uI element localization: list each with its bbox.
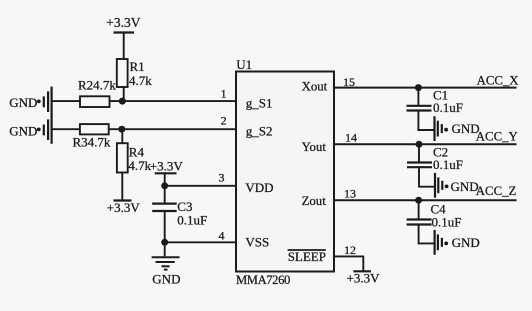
GND port (C2) bbox=[435, 173, 442, 198]
GND port (row 2) bbox=[37, 115, 52, 144]
svg-text:SLEEP: SLEEP bbox=[288, 249, 326, 264]
svg-text:GND: GND bbox=[9, 95, 37, 110]
power +3.3V P1 top bbox=[114, 33, 135, 60]
svg-text:GND: GND bbox=[9, 123, 37, 138]
wire C4 to GND port bbox=[419, 225, 435, 243]
svg-text:R34.7k: R34.7k bbox=[73, 134, 111, 149]
wire C3 to VSS node bbox=[164, 212, 166, 242]
wire node to R4 bbox=[121, 129, 123, 143]
capacitor C2 bbox=[407, 163, 432, 168]
svg-text:+3.3V: +3.3V bbox=[107, 200, 141, 215]
svg-text:g_S2: g_S2 bbox=[246, 124, 273, 139]
earth ground symbol bbox=[152, 257, 180, 269]
wire node to C4 bbox=[418, 200, 420, 218]
junction node (Zout/C4) bbox=[415, 197, 422, 204]
GND port (C1) bbox=[435, 116, 442, 141]
wire Zout pin13 bbox=[334, 199, 517, 201]
svg-text:U1: U1 bbox=[236, 57, 252, 72]
junction node (R3/R4/pin2) bbox=[118, 126, 125, 133]
svg-text:13: 13 bbox=[344, 187, 356, 201]
GND port (row 1) bbox=[37, 87, 52, 116]
svg-text:12: 12 bbox=[344, 243, 356, 257]
power +3.3V P3 (above C3) bbox=[155, 173, 177, 186]
wire Yout pin14 bbox=[334, 143, 517, 145]
wire node to C2 bbox=[418, 144, 420, 161]
capacitor C4 bbox=[407, 220, 432, 225]
wire row2 to U1 pin2 bbox=[109, 128, 236, 130]
wire node to C1 bbox=[417, 88, 419, 105]
svg-text:14: 14 bbox=[345, 131, 357, 145]
svg-text:ACC_Y: ACC_Y bbox=[476, 130, 518, 144]
svg-text:Yout: Yout bbox=[302, 140, 327, 154]
svg-text:1: 1 bbox=[221, 86, 227, 100]
svg-text:GND: GND bbox=[452, 235, 480, 250]
svg-text:+3.3V: +3.3V bbox=[347, 271, 381, 286]
SLEEP overline bbox=[288, 249, 326, 251]
svg-text:VSS: VSS bbox=[245, 235, 269, 250]
svg-text:MMA7260: MMA7260 bbox=[236, 273, 290, 287]
wire Xout pin15 bbox=[334, 87, 517, 89]
junction node (R1/R2/pin1) bbox=[119, 98, 126, 105]
wire C2 to GND port bbox=[419, 168, 435, 187]
svg-text:4: 4 bbox=[219, 229, 225, 243]
resistor R2 bbox=[80, 96, 110, 107]
svg-text:g_S1: g_S1 bbox=[246, 95, 273, 110]
svg-text:R24.7k: R24.7k bbox=[78, 78, 116, 93]
svg-text:+3.3V: +3.3V bbox=[106, 15, 140, 30]
svg-text:2: 2 bbox=[221, 114, 227, 128]
wire VSS pin4 bbox=[165, 241, 236, 243]
power +3.3V P2 (below R4) bbox=[114, 199, 132, 201]
resistor R1 bbox=[117, 59, 128, 87]
svg-text:3: 3 bbox=[219, 171, 225, 185]
svg-text:GND: GND bbox=[152, 272, 180, 287]
resistor R3 bbox=[80, 124, 109, 134]
svg-text:Xout: Xout bbox=[302, 80, 328, 94]
wire VDD pin3 bbox=[165, 185, 236, 187]
svg-text:4.7k: 4.7k bbox=[128, 158, 151, 173]
capacitor C1 bbox=[407, 106, 432, 111]
op IC U1 box bbox=[236, 72, 334, 272]
svg-text:4.7k: 4.7k bbox=[129, 73, 152, 88]
wire R4 to power bbox=[121, 173, 123, 201]
svg-text:ACC_X: ACC_X bbox=[477, 74, 520, 88]
svg-text:+3.3V: +3.3V bbox=[150, 158, 184, 173]
svg-text:R1: R1 bbox=[130, 59, 145, 74]
svg-text:0.1uF: 0.1uF bbox=[433, 157, 463, 172]
power +3.3V P4 (SLEEP pullup) bbox=[353, 270, 371, 272]
svg-text:0.1uF: 0.1uF bbox=[433, 100, 463, 115]
capacitor C3 bbox=[152, 204, 177, 211]
svg-text:ACC_Z: ACC_Z bbox=[476, 184, 517, 198]
wire row1 left bbox=[52, 100, 80, 102]
wire row1 to U1 pin1 bbox=[110, 100, 237, 102]
junction node (VSS/C3/GND) bbox=[161, 239, 168, 246]
junction node (Yout/C2) bbox=[416, 141, 423, 148]
junction node (Xout/C1) bbox=[415, 84, 422, 91]
wire C1 to GND port bbox=[418, 111, 434, 130]
wire row2 left bbox=[52, 128, 80, 130]
wire node to earth bbox=[164, 242, 166, 256]
wire SLEEP pin12 bbox=[334, 256, 363, 271]
svg-text:0.1uF: 0.1uF bbox=[177, 212, 207, 227]
resistor R4 bbox=[117, 143, 128, 172]
svg-text:Zout: Zout bbox=[302, 194, 327, 208]
junction node (VDD/C3) bbox=[161, 182, 168, 189]
GND port (C4) bbox=[435, 230, 442, 255]
svg-text:0.1uF: 0.1uF bbox=[432, 214, 462, 229]
wire node to C3 bbox=[164, 186, 166, 203]
svg-text:GND: GND bbox=[451, 179, 479, 194]
svg-text:VDD: VDD bbox=[245, 180, 273, 195]
wire R1 bottom to node bbox=[123, 87, 125, 101]
